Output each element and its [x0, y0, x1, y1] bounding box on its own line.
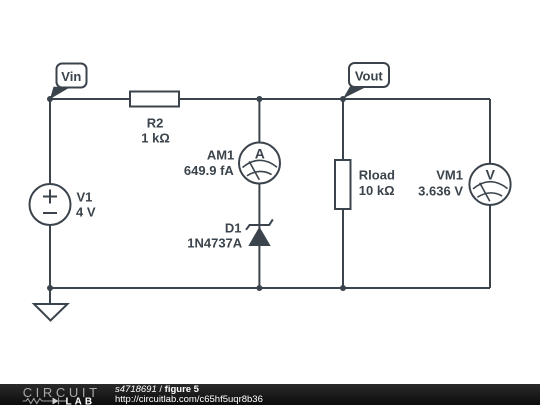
svg-text:Vin: Vin: [61, 69, 81, 84]
node Rload bottom junction dot: [340, 285, 346, 291]
node D1 bottom junction dot: [256, 285, 262, 291]
svg-text:LAB: LAB: [66, 396, 96, 405]
node Vin flag: [57, 64, 87, 88]
svg-text:AM1: AM1: [207, 148, 234, 163]
footer bar: [0, 384, 540, 405]
label V1 value: [76, 190, 96, 220]
voltmeter VM1: [469, 164, 510, 205]
node ground junction dot: [47, 285, 53, 291]
label AM1 value: [184, 148, 234, 179]
wire left vertical: [49, 99, 51, 288]
node Vout flag: [349, 63, 389, 87]
svg-text:V1: V1: [77, 190, 93, 205]
voltage source V1: [30, 184, 71, 225]
logo resistor zigzag + diode: [23, 397, 67, 404]
svg-text:10 kΩ: 10 kΩ: [359, 183, 395, 198]
footer info text: [115, 385, 263, 405]
resistor Rload: [335, 160, 351, 209]
label VM1 value: [418, 168, 463, 199]
svg-text:Vout: Vout: [355, 69, 384, 84]
wire AM1/D1 branch: [258, 99, 260, 288]
node Vout flag pointer: [343, 87, 367, 99]
label R2 value: [141, 116, 170, 146]
svg-text:4 V: 4 V: [76, 205, 96, 220]
CircuitLab logo: [0, 384, 110, 405]
node R2/AM1 junction dot: [256, 96, 262, 102]
wire VM1 branch: [489, 99, 491, 288]
ground: [34, 304, 68, 321]
wire Rload branch: [342, 99, 344, 288]
svg-text:1N4737A: 1N4737A: [187, 236, 243, 251]
ammeter AM1: [239, 143, 280, 184]
svg-text:3.636 V: 3.636 V: [418, 184, 463, 199]
wire bottom rail: [50, 287, 490, 289]
svg-text:1 kΩ: 1 kΩ: [141, 131, 170, 146]
svg-text:649.9 fA: 649.9 fA: [184, 163, 234, 178]
svg-text:Rload: Rload: [359, 168, 395, 183]
node Vin junction dot: [47, 96, 53, 102]
svg-text:VM1: VM1: [436, 168, 463, 183]
svg-text:A: A: [255, 146, 265, 162]
wire top rail: [50, 98, 490, 100]
svg-text:D1: D1: [225, 221, 242, 236]
node Vin flag pointer: [50, 87, 71, 99]
label D1 value: [187, 221, 243, 251]
svg-text:V: V: [486, 167, 496, 183]
node Vout junction dot: [340, 96, 346, 102]
svg-text:R2: R2: [147, 116, 164, 131]
resistor R2: [130, 92, 179, 107]
zener diode D1: [246, 219, 273, 246]
wire ground stem: [49, 288, 51, 304]
label Rload value: [359, 168, 395, 199]
